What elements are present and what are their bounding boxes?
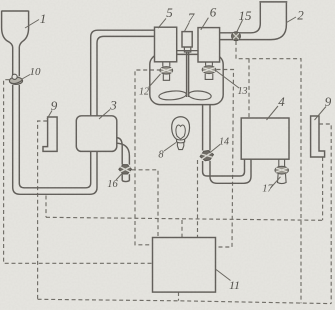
- leader line 10: [22, 75, 30, 80]
- valve 10 (stopcock under funnel): [9, 74, 22, 84]
- lamp 8 (indicator bulb): [172, 117, 190, 150]
- vessel 3 (mixer feed tank): [76, 116, 117, 152]
- leader line 4: [267, 106, 279, 120]
- tap 17 (heater 4 drain cock): [275, 160, 288, 184]
- fitting 12 (burette 5 outlet cock): [160, 62, 173, 80]
- leader line 7: [184, 22, 189, 31]
- control branch to heater 4 top: [248, 59, 250, 118]
- stirrer motor 7: [182, 32, 192, 47]
- leader line 13: [215, 70, 239, 88]
- leader line 11: [216, 270, 231, 281]
- leader line 5: [158, 18, 166, 28]
- control line from valve 15 down right side: [236, 41, 301, 303]
- burette 6: [198, 28, 220, 62]
- valve 15 (cross valve): [232, 32, 241, 41]
- bottom control bus to unit 11: [38, 299, 332, 303]
- control line from valve 10 to unit 11 left: [4, 80, 153, 264]
- leader line 14: [210, 145, 221, 154]
- heater 4: [241, 118, 289, 159]
- control line from sensor 9 right side: [319, 124, 331, 304]
- leader line 9 left: [47, 111, 52, 120]
- leader line 8: [164, 143, 176, 152]
- leader line 6: [201, 18, 209, 30]
- leader line 3: [99, 110, 110, 120]
- sensor 9 left: [43, 117, 57, 151]
- stirrer shaft: [187, 52, 189, 97]
- leader line 1: [25, 20, 39, 29]
- stirrer coupling below motor 7: [184, 47, 190, 52]
- wire pipe burette 6 to valve 15 to vessel 2: [220, 3, 287, 40]
- control line from fitting 13 to unit 11 right: [216, 70, 234, 248]
- funnel 1: [2, 11, 29, 77]
- mounting bar between 5 and 6: [177, 50, 198, 52]
- propeller blade right: [188, 90, 211, 101]
- leader line 16: [116, 174, 122, 181]
- reactor vessel (stirred tank): [150, 54, 223, 104]
- leader line 9 right: [315, 107, 327, 121]
- wire pipe vessel bottom to valve 14 to heater 4: [203, 105, 251, 184]
- valve 14 (solenoid valve): [199, 150, 214, 162]
- sensor 9 right: [311, 116, 325, 157]
- unit 11 (control unit): [153, 238, 216, 293]
- vessel 2 top cap: [259, 1, 287, 3]
- burette 5: [155, 27, 177, 62]
- control bus horizontal mid: [46, 217, 323, 220]
- control line from sensor 9 left: [38, 121, 48, 299]
- leader line 2: [287, 17, 297, 23]
- wire pipe funnel to mixer feed (down, right, up to vessel 3): [13, 85, 97, 194]
- valve 16 (solenoid valve): [119, 165, 132, 174]
- control bus tap on pipe: [45, 196, 47, 218]
- fitting 13 (burette 6 outlet cock): [202, 62, 216, 79]
- control bus branch to unit 11 top: [181, 220, 183, 238]
- leader line 12: [149, 74, 161, 88]
- control line from sensor 9 right foot: [322, 157, 324, 220]
- wire pipe vessel 3 top to burette 5: [91, 30, 155, 116]
- control line from valve 16 to unit 11 top: [132, 170, 158, 238]
- unit 11 bottom stub: [178, 292, 180, 301]
- wire pipe vessel 3 to valve 16: [117, 138, 130, 182]
- control line from fitting 12 to unit 11 left: [135, 70, 161, 245]
- leader line 17: [271, 177, 281, 188]
- control line from valve 14 to unit 11 top: [197, 160, 199, 238]
- leader line 15: [237, 20, 243, 32]
- propeller blade left: [158, 90, 186, 101]
